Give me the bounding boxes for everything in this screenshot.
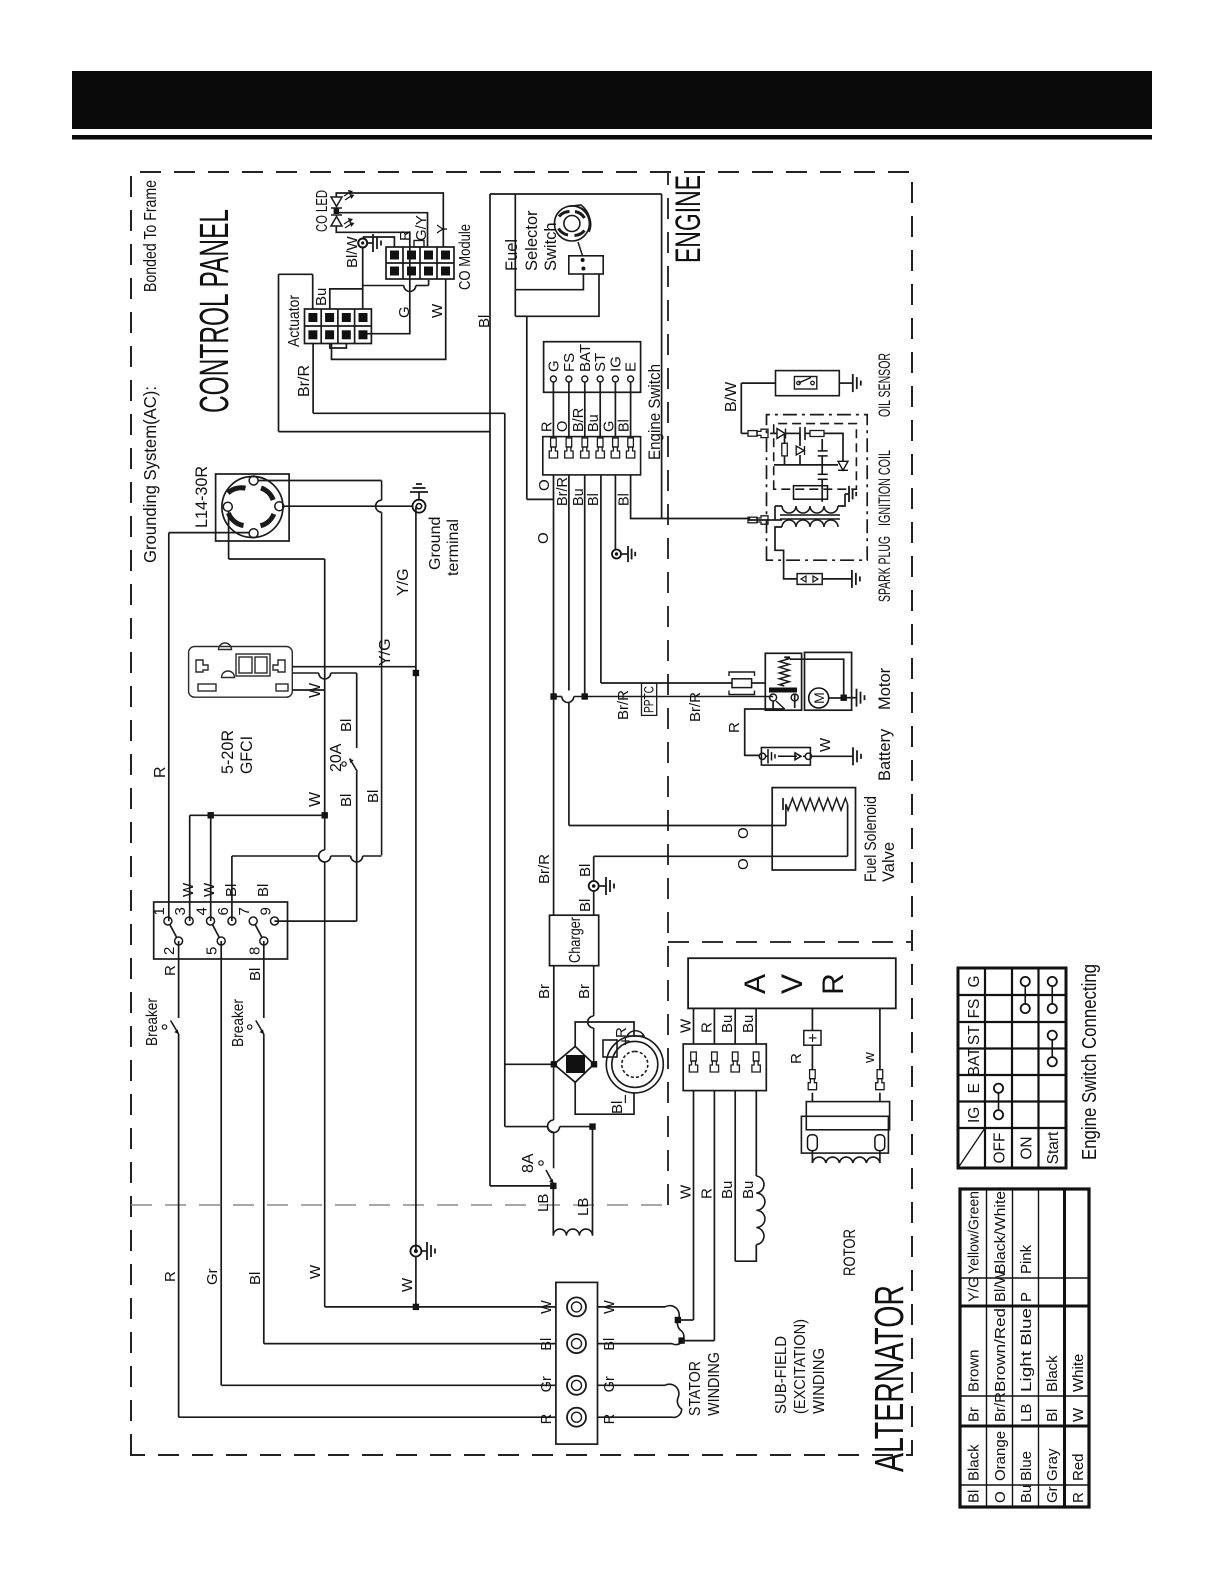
wire Bl CO-module rail to LB junction xyxy=(490,1185,553,1187)
relay starter box xyxy=(765,653,801,710)
relay coil spring xyxy=(779,657,789,686)
wire fuel selector to O wire A xyxy=(515,274,583,290)
svg-text:Bu: Bu xyxy=(740,1181,757,1199)
wire Br/R FS pin to fuel solenoid valve xyxy=(568,475,570,691)
svg-text:Bl: Bl xyxy=(577,899,594,912)
table Engine Switch Connecting xyxy=(958,968,1066,1168)
svg-text:B/R: B/R xyxy=(571,408,587,432)
svg-text:R: R xyxy=(726,722,743,733)
wire solenoid coil top feed xyxy=(785,804,787,825)
svg-text:IG: IG xyxy=(966,1107,983,1123)
svg-text:B/W: B/W xyxy=(723,381,740,412)
wire solenoid coil bottom feed xyxy=(847,804,849,856)
svg-text:8A: 8A xyxy=(520,1153,537,1173)
svg-text:R: R xyxy=(162,1271,179,1282)
svg-text:SPARK PLUG: SPARK PLUG xyxy=(876,536,894,602)
node terminal 6 xyxy=(228,917,236,925)
svg-text:1: 1 xyxy=(151,907,168,915)
svg-text:White: White xyxy=(1070,1354,1087,1392)
svg-text:Y/G: Y/G xyxy=(377,638,394,666)
wire outer dashed border (control panel / engine / alternator sections) xyxy=(131,172,912,1455)
wire CO module pin R to Bl/W ground node xyxy=(363,237,395,247)
wire Bl long run (CO module to LB) xyxy=(489,194,491,1186)
wire Bl breaker to terminal 9 xyxy=(356,772,358,922)
wire W branch to terminal 4 xyxy=(210,815,212,921)
wire secondary to spark plug xyxy=(775,527,797,579)
svg-text:R: R xyxy=(397,230,414,241)
svg-text:4: 4 xyxy=(194,907,211,915)
svg-text:20A: 20A xyxy=(328,743,345,772)
svg-text:3: 3 xyxy=(172,907,189,915)
motor box xyxy=(805,652,852,710)
node stator ring Gr xyxy=(567,1376,586,1395)
node + box (brush feed) xyxy=(804,1031,821,1046)
receptacle 5-20R GFCI xyxy=(189,643,293,697)
wire Y/G ground run to stator ground node xyxy=(415,506,417,1251)
wire Y/G receptacle right terminal to terminal strip 6 xyxy=(258,480,382,482)
diode CDI input xyxy=(777,429,785,439)
connector pin (E wire) xyxy=(626,438,634,458)
transformer ignition coil windings xyxy=(794,486,828,500)
svg-text:W: W xyxy=(399,1277,416,1292)
wire IG pin to connector xyxy=(614,382,616,437)
receptacle L14-30R xyxy=(216,474,290,541)
node L14-30R terminal bottom xyxy=(275,502,284,511)
svg-text:R: R xyxy=(602,1414,618,1424)
node junction motor ground xyxy=(841,695,847,701)
fuel solenoid valve box xyxy=(772,788,855,870)
svg-text:W: W xyxy=(307,791,324,807)
wire Br charger out 2 to bridge right vertex xyxy=(593,1028,595,1064)
svg-text:Bu: Bu xyxy=(719,1181,736,1199)
breaker 20A contact xyxy=(350,759,358,772)
resistor CDI 2 xyxy=(782,443,788,456)
svg-text:Br/R: Br/R xyxy=(296,365,313,397)
wire O wire A to fuel selector switch xyxy=(514,194,516,316)
svg-text:SUB-FIELD: SUB-FIELD xyxy=(773,1336,790,1414)
svg-text:Bu: Bu xyxy=(740,1015,757,1033)
connector bullet ignition primary xyxy=(748,516,768,524)
svg-text:Br/R: Br/R xyxy=(687,692,704,722)
wire W avr long run xyxy=(693,1091,695,1320)
wire Bl E pin to kill rail xyxy=(631,475,662,519)
svg-text:+: + xyxy=(805,1033,822,1042)
connector stator 4-ring xyxy=(556,1282,598,1444)
svg-text:Breaker: Breaker xyxy=(144,997,161,1046)
svg-text:Gr: Gr xyxy=(539,1376,555,1392)
connector bullet brush W xyxy=(876,1070,884,1090)
svg-text:terminal: terminal xyxy=(445,519,462,576)
svg-text:O: O xyxy=(555,421,571,432)
wire Bu BAT pin to Br/R rail xyxy=(584,475,586,697)
ground at alternator W wire xyxy=(421,1250,427,1252)
svg-text:Bl: Bl xyxy=(476,315,493,328)
svg-text:Motor: Motor xyxy=(876,667,894,710)
svg-text:Brown: Brown xyxy=(966,1349,983,1392)
resistor CDI (box) xyxy=(810,431,824,437)
connector pin (ST wire) xyxy=(596,438,604,458)
wire 8A branch from bridge top to LB coil xyxy=(553,1132,555,1168)
wire spark plug to ground xyxy=(822,578,852,580)
svg-text:Actuator: Actuator xyxy=(286,295,303,347)
wire relay to motor xyxy=(794,694,796,708)
svg-text:FS: FS xyxy=(966,999,983,1019)
connector bullet brush R xyxy=(808,1070,816,1090)
switch oil pressure contact xyxy=(794,377,816,390)
svg-text:P: P xyxy=(1018,1292,1035,1302)
connector Actuator (2x4) xyxy=(305,309,372,344)
node engine switch pin IG xyxy=(612,376,618,382)
wire transformer ground leg xyxy=(838,494,845,506)
wire CO module col3 bottom to actuator node xyxy=(428,280,430,286)
node junction Br/R-charger xyxy=(550,693,556,699)
wire Bu AVR to 4-pin connector xyxy=(755,1008,757,1044)
svg-text:Y: Y xyxy=(434,224,451,234)
node IG ground circle xyxy=(612,550,621,559)
svg-text:ENGINE: ENGINE xyxy=(669,175,708,263)
capacitor CDI 3 xyxy=(818,478,828,480)
ground symbol at ground terminal xyxy=(418,492,420,500)
node charger ground circle xyxy=(589,881,599,891)
node terminal 1 xyxy=(164,917,172,925)
svg-text:ON: ON xyxy=(1019,1136,1036,1159)
wire Bl ST pin to PPTC xyxy=(600,475,602,683)
svg-text:Bl: Bl xyxy=(1044,1409,1061,1422)
node relay contact a xyxy=(770,694,777,701)
wire table Start connection BAT-ST xyxy=(1051,1035,1053,1062)
ground at battery xyxy=(852,747,854,765)
thyristor SCR xyxy=(838,461,848,470)
wire R receptacle left to terminal 1 xyxy=(168,533,170,922)
svg-text:Charger: Charger xyxy=(567,916,584,963)
wire Bl GFCI through 20A breaker to terminal 9 xyxy=(356,673,358,748)
brush holder blocks xyxy=(806,1102,889,1130)
node label PPTC (boxed) xyxy=(642,683,657,715)
node junction rectifier negative xyxy=(589,1123,595,1129)
svg-text:Bu: Bu xyxy=(1018,1485,1035,1503)
switch Fuel Selector microswitch xyxy=(569,256,603,274)
wire actuator link col2-col3 bottom xyxy=(330,344,347,349)
wire table Start connection FS-G xyxy=(1051,982,1053,1009)
svg-text:Selector: Selector xyxy=(523,210,541,271)
wire CDI to transformer xyxy=(821,489,823,502)
svg-text:Gr: Gr xyxy=(1044,1486,1061,1503)
connector pin (FS wire) xyxy=(565,438,573,458)
svg-text:OIL SENSOR: OIL SENSOR xyxy=(876,353,894,417)
svg-text:Y/G: Y/G xyxy=(966,1276,983,1302)
wire GFCI neutral slot wire xyxy=(292,672,318,674)
motor M circle xyxy=(809,688,829,708)
node relay contact b xyxy=(791,694,798,701)
wire Gr terminal 5 to stator xyxy=(220,941,222,1385)
svg-text:Bl: Bl xyxy=(223,884,240,897)
wire dashed divider control panel bottom (landscape y=668) xyxy=(667,172,669,1205)
svg-text:W: W xyxy=(201,882,218,897)
svg-text:ST: ST xyxy=(966,1025,983,1045)
breaker (R wire) xyxy=(171,1021,179,1035)
battery box xyxy=(761,748,810,766)
svg-text:Pink: Pink xyxy=(1018,1244,1035,1274)
capacitor CDI 2 xyxy=(818,455,828,457)
svg-text:Black: Black xyxy=(966,1444,983,1481)
node junction W avr-stator xyxy=(675,1317,681,1323)
svg-text:Gray: Gray xyxy=(1044,1448,1061,1481)
wire motor to ground node xyxy=(829,697,844,699)
svg-text:W: W xyxy=(180,882,197,897)
wire Bu actuator col2 to Bl/W wire xyxy=(330,289,363,309)
wire R down to stator connector xyxy=(179,1416,556,1418)
svg-text:ALTERNATOR: ALTERNATOR xyxy=(866,1285,912,1472)
node terminal 8 xyxy=(260,937,268,945)
wire CDI bus xyxy=(774,464,838,466)
wire Bl/W from node to actuator col4 top xyxy=(362,248,364,310)
wire Br charger out 1 to bridge xyxy=(553,966,555,1065)
node battery terminal left xyxy=(759,753,765,759)
svg-text:W: W xyxy=(1070,1407,1087,1422)
wire dashed divider control panel left (x=379) xyxy=(131,1204,668,1206)
wire Bu avr run 2 xyxy=(755,1091,757,1176)
wire transformer secondary top xyxy=(775,505,782,507)
svg-text:G: G xyxy=(966,975,983,987)
wire Bl down to stator connector xyxy=(264,1343,556,1345)
wire LB coil 2 from rectifier negative xyxy=(592,1127,594,1236)
svg-text:Blue: Blue xyxy=(1018,1451,1035,1481)
node battery terminal right xyxy=(805,753,811,759)
svg-text:GFCI: GFCI xyxy=(237,736,256,774)
wire ground node to stator W line xyxy=(415,1257,417,1307)
node terminal 9 xyxy=(271,917,279,925)
spark plug box xyxy=(797,574,822,585)
wire Br/R charger input xyxy=(553,697,555,916)
svg-text:Bl: Bl xyxy=(365,790,382,803)
wire GFCI ground terminal wire xyxy=(292,666,416,668)
connector pin (BAT wire) xyxy=(581,438,589,458)
node terminal 3 xyxy=(185,917,193,925)
svg-text:Bl: Bl xyxy=(247,968,264,981)
oil sensor box xyxy=(776,371,840,396)
ground at spark plug xyxy=(851,570,853,588)
svg-text:9: 9 xyxy=(258,907,275,915)
wire brush R to rotor xyxy=(811,1151,813,1163)
wire Bl terminal 8 to stator (with breaker) xyxy=(263,941,265,1018)
node LED junction square xyxy=(334,209,340,215)
svg-text:Bu: Bu xyxy=(313,288,330,306)
svg-text:W: W xyxy=(429,303,446,318)
node engine switch pin BAT xyxy=(582,376,588,382)
LED D1 (CO LED) xyxy=(331,191,353,208)
wire brush W to rotor xyxy=(879,1151,881,1163)
svg-text:LB: LB xyxy=(1018,1404,1035,1422)
svg-text:Valve: Valve xyxy=(880,842,898,882)
svg-text:Br: Br xyxy=(966,1407,983,1422)
svg-text:Bl: Bl xyxy=(586,493,602,506)
capacitor CDI 1 xyxy=(799,427,801,440)
svg-text:Bl: Bl xyxy=(255,884,272,897)
node Bl/W junction circle xyxy=(358,239,367,248)
battery cell plates xyxy=(766,749,805,763)
svg-text:R: R xyxy=(788,1053,805,1064)
wire W receptacle top terminal down xyxy=(228,511,230,559)
svg-text:G: G xyxy=(545,360,562,372)
wire oil sensor to ground xyxy=(839,382,853,384)
inductor LB winding xyxy=(553,1229,592,1236)
wire W long run to stator xyxy=(324,862,326,1307)
svg-text:IGNITION COIL: IGNITION COIL xyxy=(876,450,894,526)
LED D2 (CO LED) xyxy=(331,215,353,228)
svg-text:R: R xyxy=(539,422,555,432)
node junction GFCI ground tap xyxy=(413,670,419,676)
wire CDI input xyxy=(741,432,748,434)
wire to R brush bullet xyxy=(811,1045,813,1070)
svg-text:Yellow/Green: Yellow/Green xyxy=(966,1191,983,1274)
wire O drop to rectifier bottom xyxy=(505,1126,548,1128)
wire Br/R rail into relay xyxy=(772,701,774,710)
node terminal 5 xyxy=(217,937,225,945)
connector CO Module (2x4) xyxy=(386,247,454,279)
wire fuel selector second contact to G loop xyxy=(527,274,599,316)
wire Bu avr run 1 xyxy=(734,1091,736,1262)
wire R avr long run xyxy=(713,1091,715,1341)
wire bridge negative to slip ring xyxy=(575,1082,634,1114)
wire R AVR to 4-pin connector xyxy=(713,1008,715,1044)
svg-text:Battery: Battery xyxy=(876,728,894,781)
connector pin Bu xyxy=(752,1052,760,1072)
svg-text:O: O xyxy=(735,858,752,870)
svg-text:O: O xyxy=(992,1491,1009,1503)
switch box Engine Switch xyxy=(544,342,641,393)
header underline xyxy=(72,135,1152,140)
wire Bl charger input xyxy=(593,891,595,915)
connector pin R xyxy=(710,1052,718,1072)
node junction LB xyxy=(550,1183,556,1189)
wire sub-field end link xyxy=(735,1245,756,1262)
svg-text:CO LED: CO LED xyxy=(314,190,331,232)
svg-text:V: V xyxy=(776,974,809,994)
node terminal 4 xyxy=(207,917,215,925)
node L14-30R terminal top xyxy=(223,502,232,511)
svg-text:Bl: Bl xyxy=(247,1272,264,1285)
svg-text:R: R xyxy=(152,766,169,778)
svg-text:W: W xyxy=(678,1184,695,1199)
wire R terminal 2 to stator (with breaker) xyxy=(178,941,180,1018)
slip ring / starter pulley xyxy=(603,1031,663,1093)
wire E rail to ignition coil input xyxy=(662,518,751,520)
svg-text:Red: Red xyxy=(1070,1453,1087,1481)
svg-text:Orange: Orange xyxy=(992,1431,1009,1481)
svg-text:Bl: Bl xyxy=(966,1490,983,1503)
svg-text:LB: LB xyxy=(575,1198,592,1216)
wire actuator col1 top loop xyxy=(279,273,313,275)
wire Bl IG pin to ground xyxy=(614,475,616,550)
node terminal 7 xyxy=(249,917,257,925)
wire table ON connection FS-G xyxy=(1024,982,1026,1009)
node junction Br/R-BAT wire xyxy=(582,693,588,699)
connector pin W xyxy=(689,1052,697,1072)
svg-text:8: 8 xyxy=(246,947,263,955)
breaker 8A xyxy=(546,1170,553,1183)
svg-text:W: W xyxy=(307,1264,324,1279)
svg-text:L14-30R: L14-30R xyxy=(192,466,211,528)
svg-text:A: A xyxy=(739,974,772,994)
wire stator winding 1 (W-Bl) xyxy=(598,1306,666,1308)
wire Br/R actuator col1 bottom to O line xyxy=(312,344,314,414)
connector AVR 4-pin box xyxy=(683,1044,766,1091)
svg-text:Br/R: Br/R xyxy=(536,854,553,884)
svg-text:(EXCITATION): (EXCITATION) xyxy=(792,1319,809,1414)
wire O to diode bridge left vertex xyxy=(505,1063,554,1065)
wire cdi cap3 xyxy=(821,479,823,489)
svg-text:PPTC: PPTC xyxy=(642,686,657,713)
svg-text:Br/R: Br/R xyxy=(615,690,632,720)
wire Bl rail from LED to CO module col4 xyxy=(336,193,443,247)
svg-text:Fuel: Fuel xyxy=(503,239,521,271)
solenoid coil xyxy=(786,798,848,810)
connector engine switch 6-pin xyxy=(543,437,641,475)
switch Fuel Selector rotary xyxy=(554,205,590,241)
svg-text:Light Blue: Light Blue xyxy=(1018,1308,1035,1392)
node junction stator W xyxy=(413,1304,419,1310)
charger box xyxy=(550,915,599,966)
svg-text:Engine Switch Connecting: Engine Switch Connecting xyxy=(1079,964,1101,1160)
node engine switch pin G xyxy=(550,376,556,382)
svg-text:Black/White: Black/White xyxy=(992,1191,1009,1274)
wire W receptacle left terminal to GFCI/terminal strip xyxy=(169,532,249,534)
svg-text:WINDING: WINDING xyxy=(811,1348,828,1414)
ground at ignition coil xyxy=(845,493,849,495)
wire r2 xyxy=(784,456,786,465)
wire FS pin to connector xyxy=(568,382,570,437)
svg-text:STATOR: STATOR xyxy=(687,1361,704,1416)
wire R relay to battery xyxy=(776,701,785,709)
wire primary feed xyxy=(748,519,770,521)
connector bullet CDI input xyxy=(748,429,768,437)
svg-text:Bl: Bl xyxy=(617,419,633,432)
svg-text:−: − xyxy=(616,1094,635,1104)
relay contact bar xyxy=(769,688,797,693)
wire O engine switch G pin to Br/R node xyxy=(553,475,555,697)
svg-text:W: W xyxy=(817,737,834,752)
diode CDI zener xyxy=(796,446,804,455)
svg-text:Switch: Switch xyxy=(542,222,560,271)
rotor winding coil xyxy=(812,1157,880,1163)
node junction R avr-stator xyxy=(678,1337,684,1343)
wire G pin to connector xyxy=(552,382,554,437)
svg-text:Gr: Gr xyxy=(204,1268,221,1285)
svg-text:5: 5 xyxy=(204,947,221,955)
svg-text:CO Module: CO Module xyxy=(457,224,474,290)
wire link terminal 4-5 xyxy=(212,925,219,938)
svg-text:Br: Br xyxy=(576,984,593,999)
sub-field winding coil xyxy=(756,1176,765,1245)
CDI module box (dashed) xyxy=(774,424,857,490)
wire dashed divider engine/alternator (x=642) xyxy=(668,941,912,943)
svg-text:Black: Black xyxy=(1044,1355,1061,1392)
svg-text:M: M xyxy=(811,692,827,704)
node ground circle (alternator W) xyxy=(410,1246,421,1257)
wire link terminal 1-2 xyxy=(170,925,177,938)
header black bar xyxy=(72,71,1152,129)
node L14-30R terminal right xyxy=(249,476,258,485)
node engine switch pin E xyxy=(628,376,634,382)
svg-text:R: R xyxy=(539,1414,555,1424)
svg-text:Bl: Bl xyxy=(338,719,355,732)
svg-text:ROTOR: ROTOR xyxy=(841,1229,859,1276)
wire table OFF connection IG-E xyxy=(998,1088,1000,1115)
AVR box xyxy=(688,958,896,1008)
svg-text:Br: Br xyxy=(536,984,553,999)
svg-text:O: O xyxy=(536,479,553,491)
svg-text:Breaker: Breaker xyxy=(230,998,247,1047)
